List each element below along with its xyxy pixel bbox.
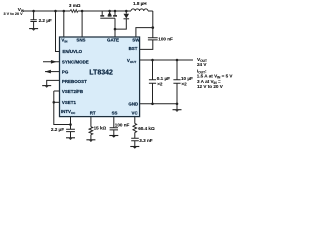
svg-text:VOUT: VOUT <box>127 58 136 64</box>
node SNS pin junction <box>81 10 84 13</box>
node VSET1 junction <box>53 101 56 104</box>
chip pin labels <box>61 38 140 116</box>
node diode anode junction <box>125 10 128 13</box>
schematic value labels <box>4 1 234 143</box>
wire RT to ground <box>90 135 92 140</box>
svg-text:GATE: GATE <box>107 38 119 43</box>
svg-text:2.2 µF: 2.2 µF <box>51 127 64 132</box>
svg-text:VC: VC <box>132 110 139 115</box>
wire INTVCC pin <box>70 117 72 130</box>
wire VIN pin <box>63 11 65 37</box>
wire SNS pin <box>81 11 83 37</box>
svg-text:100 nF: 100 nF <box>158 37 173 42</box>
capacitor C-IN 2.2uF upper lead <box>33 11 35 20</box>
svg-text:1.8 µH: 1.8 µH <box>133 1 147 6</box>
svg-text:3 V to 20 V: 3 V to 20 V <box>4 12 24 16</box>
svg-text:3.3 nF: 3.3 nF <box>139 138 152 143</box>
node VIN pin junction <box>63 10 66 13</box>
svg-text:100 nF: 100 nF <box>115 123 130 128</box>
node SW junction <box>152 26 155 29</box>
svg-text:12 V to 20 V: 12 V to 20 V <box>197 84 224 89</box>
wire rail after sense resistor <box>78 10 131 12</box>
svg-text:LT8342: LT8342 <box>89 70 113 77</box>
wire gate to GATE pin <box>114 18 116 37</box>
wire SW node vertical <box>152 11 154 38</box>
wire VIN input rail <box>24 10 70 12</box>
resistor R-VC 60.4k <box>133 124 137 133</box>
svg-text:GND: GND <box>128 101 139 106</box>
wire VC resistor to cap <box>134 133 136 139</box>
svg-text:×2: ×2 <box>181 82 187 87</box>
wire VSET1 stub <box>54 101 60 103</box>
transistor Q1 left stub <box>101 11 103 15</box>
capacitor C-OUT1 0.1uF upper lead <box>152 60 154 80</box>
ground INTVCC cap <box>66 137 75 139</box>
svg-text:VSET1: VSET1 <box>62 100 77 105</box>
svg-text:INTVCC: INTVCC <box>61 109 76 115</box>
wire diode cathode to gate net <box>115 19 126 29</box>
svg-text:60.4 kΩ: 60.4 kΩ <box>138 126 155 131</box>
transistor Q1 channel dashes <box>100 15 117 17</box>
capacitor C-VC lower lead <box>134 141 136 146</box>
capacitor C-BST 100nF plates <box>148 38 158 40</box>
capacitor C-SS lower lead <box>113 130 115 135</box>
svg-text:24 V: 24 V <box>197 62 207 67</box>
svg-text:EN/UVLO: EN/UVLO <box>62 49 82 54</box>
node input cap junction <box>32 10 35 13</box>
wire VOUT rail <box>140 59 193 61</box>
capacitor C-OUT2 10uF upper lead <box>176 60 178 80</box>
capacitor C-VCC lower lead <box>70 132 72 138</box>
wire SS pin <box>113 117 115 128</box>
ground PREBOOST <box>42 85 51 87</box>
svg-text:0.1 µF: 0.1 µF <box>157 76 170 81</box>
diode D1 cathode bar <box>124 18 130 20</box>
node VOUT cap2 junction <box>176 59 179 62</box>
transistor Q1 right stub <box>114 11 116 15</box>
capacitor C-IN lower lead <box>33 22 35 29</box>
node junction dots <box>32 10 178 126</box>
arrow SYNC/MODE input <box>43 61 60 63</box>
svg-text:VIN: VIN <box>61 38 67 44</box>
ground output bus <box>176 104 178 110</box>
svg-text:PG: PG <box>62 69 69 74</box>
ground RT <box>86 139 95 141</box>
transistor Q1 middle stub <box>109 11 111 15</box>
wire VC pin <box>134 117 136 124</box>
svg-text:10 µF: 10 µF <box>181 76 193 81</box>
resistor R-RT 15k <box>89 127 93 135</box>
node INTVCC cap junction <box>69 123 72 126</box>
svg-text:SYNC/MODE: SYNC/MODE <box>62 59 89 64</box>
node Q1 drain junction <box>114 10 117 13</box>
capacitor C-OUT2 plates <box>173 80 180 83</box>
resistor R-sense 3mOhm <box>70 10 78 13</box>
svg-text:VSET2/FB: VSET2/FB <box>62 89 83 94</box>
svg-text:SS: SS <box>112 110 118 115</box>
capacitor C-OUT1 lower lead <box>152 83 154 104</box>
wire GND pin bus <box>140 103 177 105</box>
wire EN/UVLO branch <box>56 11 60 52</box>
ground SS cap <box>109 135 118 137</box>
capacitor C-OUT2 lower lead <box>176 83 178 104</box>
ground VC <box>130 146 139 148</box>
wire BST pin <box>140 40 153 50</box>
svg-text:SNS: SNS <box>76 38 85 43</box>
capacitor C-OUT1 plates <box>149 80 156 83</box>
wire VSET tie vertical <box>54 91 71 125</box>
inductor L1 1.8uH <box>131 9 148 11</box>
svg-text:×2: ×2 <box>157 82 163 87</box>
node EN branch junction <box>54 10 57 13</box>
capacitor C-VC 3.3nF plates <box>131 138 139 141</box>
capacitor C-SS 100nF plates <box>110 128 118 130</box>
node gnd bus cap2 junction <box>176 103 179 106</box>
arrow PG output <box>45 71 60 73</box>
svg-text:PREBOOST: PREBOOST <box>62 79 87 84</box>
wire SW pin branch <box>136 28 153 37</box>
transistor Q1 body arrow <box>108 12 112 15</box>
node gnd bus cap1 junction <box>151 103 154 106</box>
svg-text:2.2 µF: 2.2 µF <box>39 18 52 23</box>
diode D1 triangle <box>124 14 130 19</box>
capacitor C-VCC 2.2uF plates <box>66 129 75 131</box>
svg-text:BST: BST <box>129 46 138 51</box>
wire PREBOOST to ground <box>47 80 60 85</box>
transistor Q1 gate plate <box>100 17 115 19</box>
svg-text:SW: SW <box>132 38 140 43</box>
op-amp U1 LT8342 body <box>60 37 140 117</box>
svg-text:RT: RT <box>90 110 96 115</box>
ground input cap <box>29 28 38 30</box>
svg-text:15 kΩ: 15 kΩ <box>94 126 107 131</box>
wire RT pin <box>90 117 92 127</box>
capacitor C-IN plates <box>30 20 36 22</box>
wire VSET2/FB stub <box>54 90 60 92</box>
node gate net junction <box>114 28 117 31</box>
node VOUT cap1 junction <box>151 59 154 62</box>
diode D1 anode lead <box>125 11 127 14</box>
node Q1 body junction <box>108 10 111 13</box>
svg-text:3 mΩ: 3 mΩ <box>69 3 81 8</box>
wire rail inductor to corner <box>148 10 153 12</box>
